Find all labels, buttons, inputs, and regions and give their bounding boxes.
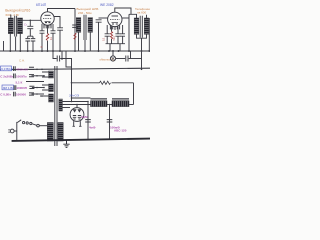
wire R4 down <box>111 39 113 44</box>
wire coupling cont <box>60 59 71 102</box>
tube V2 heater blobs <box>112 23 118 25</box>
terminal circle <box>37 124 40 127</box>
wire left speaker drop <box>3 41 5 51</box>
capacitor C19 plates <box>85 120 91 122</box>
wire T1 primary top stub <box>10 15 12 19</box>
rectifier tube V3 envelope <box>70 108 84 122</box>
wire coupling branch <box>53 51 57 59</box>
wire T3 primary top to V2 <box>129 14 137 18</box>
choke L1 core line <box>91 99 108 100</box>
transformer T2 label <box>77 7 99 15</box>
transformer T3 secondary winding <box>144 18 149 34</box>
svg-text:WE 2082: WE 2082 <box>100 3 114 7</box>
wire screen drop x75 <box>74 9 76 52</box>
V3 heater pins <box>73 125 82 127</box>
capacitor C5 plates <box>72 25 78 27</box>
wire choke out <box>129 104 134 106</box>
V3 heater A <box>73 116 76 120</box>
wire T2 core center lead <box>84 40 86 51</box>
wire C8b down <box>122 36 124 44</box>
wire R2 to bus <box>47 41 49 51</box>
wire row3 <box>26 81 44 83</box>
svg-text:236 - 50м: 236 - 50м <box>78 11 91 15</box>
V3 anode plate A <box>73 109 77 112</box>
wire V1 cathode branch right <box>54 17 60 28</box>
lamp HL1 cross <box>111 57 115 61</box>
capacitor C1 plates <box>27 26 33 28</box>
wire V3 heater stubs <box>74 121 81 126</box>
wire C3b to bus <box>52 33 54 51</box>
transformer T1 label <box>5 8 30 16</box>
svg-text:Сг: Сг <box>24 22 27 26</box>
wire T1 core center lead <box>15 37 17 52</box>
wire mains riser <box>16 122 18 141</box>
wire C8 down <box>117 36 119 44</box>
wire T3 bottoms joined <box>137 34 147 38</box>
row4 node dot <box>36 87 38 89</box>
wire V1 pin3 drop <box>47 25 49 33</box>
wire screen feed <box>72 97 91 99</box>
PT primary section 2 <box>49 84 54 92</box>
row2 node dot <box>36 75 38 77</box>
capacitor C6 plates <box>96 20 102 22</box>
wire heater drop b <box>66 51 72 67</box>
capacitor C13 plates <box>14 74 16 79</box>
capacitor C7 plates <box>105 34 110 36</box>
tube V1 anode <box>45 14 51 16</box>
wire drop to bus a <box>109 44 111 51</box>
wire V1 pin1 drop <box>41 24 43 31</box>
svg-text:6,3 В(НК): 6,3 В(НК) <box>1 67 14 71</box>
capacitor C12 plates <box>29 67 34 69</box>
wire HV tap2 <box>62 104 90 106</box>
capacitor C17 plates <box>14 92 16 97</box>
svg-text:R: R <box>41 46 43 49</box>
wire T2 primary lead down <box>78 32 80 51</box>
capacitor C8 plates <box>115 34 120 36</box>
dot screen feed <box>71 97 73 99</box>
capacitor C4 plates <box>57 28 63 30</box>
capacitor C16 plates <box>29 86 34 88</box>
wire tap drop <box>130 51 132 59</box>
wire V3 plate riser <box>76 105 78 108</box>
capacitor C14 plates <box>29 75 34 77</box>
wire T1 secondary lead down <box>19 34 21 51</box>
transformer T1 core <box>15 16 17 37</box>
svg-text:АВС-120: АВС-120 <box>114 129 127 133</box>
tube V2 anode <box>112 15 119 17</box>
wire T3 center drop <box>141 38 143 69</box>
capacitor C1 branch from grid wire <box>29 20 31 26</box>
wire V2 plate up and right <box>115 8 131 14</box>
wire choke right riser <box>133 83 135 105</box>
heater bus wire <box>0 68 150 70</box>
capacitor C3b plates <box>51 31 56 33</box>
wire C3 to bus <box>41 33 43 51</box>
PT secondary HV <box>59 99 63 111</box>
wire V1 plate to top bus <box>48 9 76 12</box>
transformer T3 primary winding <box>134 18 139 34</box>
capacitor C3 plates <box>40 31 45 33</box>
choke L1 <box>91 101 108 107</box>
PT primary section 1 <box>49 71 54 78</box>
transformer T2 secondary winding <box>88 18 93 33</box>
svg-text:6П14П: 6П14П <box>36 3 47 7</box>
transformer T2 core <box>84 15 86 40</box>
tube V1 grid <box>43 18 52 20</box>
dot tap1 join <box>71 101 73 103</box>
wire T3 left lead down <box>128 14 130 51</box>
lamp HL1 <box>110 56 115 61</box>
choke L2 core line <box>112 99 129 100</box>
svg-text:4мФ: 4мФ <box>89 125 96 129</box>
svg-text:ЗМ 1 Вт: ЗМ 1 Вт <box>3 86 15 90</box>
wire HV tap3 <box>62 107 70 109</box>
junction dots on bus <box>9 50 150 52</box>
wire switch to PT <box>32 124 37 126</box>
wire V1 pin4 drop <box>52 24 54 31</box>
wire row4 <box>32 87 44 89</box>
wire drop to bus b <box>119 44 121 51</box>
dot between chokes <box>109 104 111 106</box>
wire V2 grid line <box>99 17 108 19</box>
transformer T3 label <box>135 7 153 15</box>
tube V1 heater blobs <box>45 22 50 24</box>
PT primary section 3 <box>49 94 54 102</box>
wire row5 <box>32 93 45 95</box>
resistor R4 <box>110 32 112 40</box>
wire row2 <box>32 75 45 77</box>
PT heater winding <box>58 123 63 142</box>
wire V2 right lead <box>122 17 129 19</box>
svg-text:600 - 2 Вт: 600 - 2 Вт <box>6 13 20 17</box>
capacitor C10 plates <box>126 56 128 62</box>
svg-text:Выходной ШЛ16: Выходной ШЛ16 <box>5 8 30 12</box>
wire V1 grid wire to T1 <box>20 19 41 21</box>
power transformer PT core <box>55 66 57 146</box>
tube V1 envelope <box>41 12 54 25</box>
wire C2b to bus <box>32 41 34 51</box>
svg-text:С 2х20Вт: С 2х20Вт <box>0 75 14 79</box>
resistor R2 <box>46 34 48 41</box>
capacitor C2 plates <box>25 39 30 41</box>
wire filter cap 2 drop <box>109 105 111 141</box>
svg-text:4700+50: 4700+50 <box>16 67 28 71</box>
label box LS2 <box>2 85 14 90</box>
svg-text:1000По: 1000По <box>16 75 27 79</box>
dot on tap1 <box>76 104 78 106</box>
wire T3 right side <box>148 18 150 51</box>
label box LS1 <box>1 66 12 71</box>
capacitor C15 plates <box>14 85 16 90</box>
svg-text:0,1: 0,1 <box>102 37 105 41</box>
capacitor C8b plates <box>120 34 125 36</box>
tap dots <box>41 75 45 97</box>
capacitor C9 plates <box>57 56 59 62</box>
capacitor C18 plates <box>29 93 34 95</box>
wire C4 to bus <box>59 30 61 51</box>
wire terminal to winding <box>39 125 47 127</box>
transformer T3 core <box>140 16 142 38</box>
wire PT tap stubs <box>40 72 49 96</box>
wire C2 split <box>28 36 33 38</box>
mains plug prongs <box>8 130 10 132</box>
choke L2 <box>112 101 129 107</box>
wire C7 down <box>106 36 108 44</box>
wire C1 down <box>29 29 31 37</box>
tube V1 pins <box>44 24 51 28</box>
tube V1 cathode <box>45 21 51 23</box>
wire C6 to bus <box>98 22 100 51</box>
wire plug to riser <box>14 130 17 132</box>
junction dots on heater bus <box>41 69 142 71</box>
wire heater drop a <box>61 51 63 60</box>
wire T2 secondary lead down <box>89 32 91 51</box>
wire HV tap1 <box>62 101 88 103</box>
wire V2 cathode net <box>106 43 126 45</box>
capacitor C2b plates <box>31 39 36 41</box>
wire V2 pin drops <box>107 25 122 34</box>
ground symbol <box>63 140 69 147</box>
svg-text:С.Н.: С.Н. <box>19 59 25 63</box>
wire T3 secondary top stub <box>146 15 148 18</box>
transformer T1 secondary winding <box>18 18 23 34</box>
tube V2 cathode <box>112 22 119 24</box>
capacitor C20 plates <box>107 120 113 122</box>
svg-text:С 0,5Вт: С 0,5Вт <box>0 93 11 97</box>
row5 node dot <box>36 93 38 95</box>
switch SA1 <box>17 120 21 123</box>
capacitor C11 plates <box>14 66 16 71</box>
svg-text:па 600: па 600 <box>137 11 146 15</box>
transformer T1 primary winding <box>8 18 13 34</box>
tube V2 grid <box>110 19 120 21</box>
mains plug <box>10 129 14 133</box>
wire lamp to cap <box>116 58 126 60</box>
dot grid junction <box>30 20 32 22</box>
fuse contacts <box>23 122 25 124</box>
resistor R6 <box>100 81 111 84</box>
tube V2 envelope <box>108 12 122 26</box>
svg-text:5,1 К: 5,1 К <box>16 80 23 84</box>
V3 anode plate B <box>77 109 81 112</box>
lamp HL1 feed <box>112 51 114 56</box>
wire cap to T3 drop <box>129 58 142 60</box>
dot B+ corner <box>71 82 73 84</box>
dot choke in <box>87 101 89 103</box>
transformer T2 primary winding <box>76 18 81 33</box>
wire rectifier output <box>87 102 89 141</box>
V3 heater B <box>78 116 81 120</box>
tube V2 pins <box>110 25 119 29</box>
ground bus wire <box>12 139 150 141</box>
wire C2 to bus <box>27 41 29 51</box>
wire between chokes <box>107 104 112 106</box>
row1 node dot <box>36 69 38 71</box>
svg-text:10000П: 10000П <box>16 86 27 90</box>
svg-text:ЗЧ+ОЭ: ЗЧ+ОЭ <box>69 94 80 98</box>
PT primary big winding <box>47 123 53 142</box>
wire B+ line <box>72 82 134 84</box>
wire T1 primary lead down <box>9 34 11 51</box>
svg-text:100000: 100000 <box>16 93 26 97</box>
resistor R3 <box>74 33 76 40</box>
main bus wire <box>0 50 150 52</box>
